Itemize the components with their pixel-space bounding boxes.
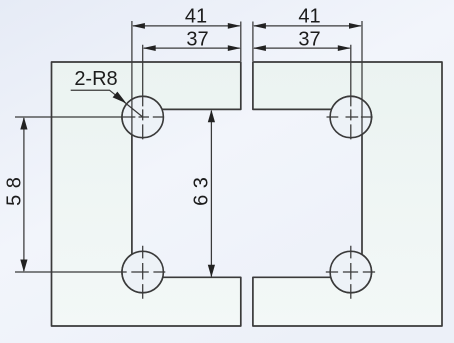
arrow 37 right-end (338, 45, 351, 51)
dimension line 41 right (254, 25, 361, 27)
centerline horizontal top-left hole (15, 116, 163, 118)
arrow 58 bottom (20, 260, 27, 273)
svg-text:58: 58 (4, 171, 26, 206)
arrow leader 2-R8 (113, 92, 127, 104)
dimension line 63 (210, 111, 212, 277)
svg-text:37: 37 (186, 28, 208, 50)
arrow 63 top (208, 110, 215, 123)
arrow 37 left-start (143, 45, 156, 51)
svg-text:41: 41 (298, 5, 320, 27)
hole top-left (R8) (122, 96, 163, 137)
dimension line 37 left (144, 47, 240, 49)
arrow 58 top (20, 117, 27, 130)
arrow 41 left-end (228, 23, 241, 29)
centerline horizontal bottom-right hole (326, 271, 375, 273)
hole top-right (R8) (330, 96, 371, 137)
centerline vertical bottom-right hole (350, 246, 352, 299)
dimension line 37 right (254, 47, 350, 49)
extension line notch edge right (361, 21, 363, 134)
centerline horizontal top-right hole (327, 116, 373, 118)
leader line 2-R8 (71, 90, 143, 117)
arrow 41 right-end (349, 23, 362, 29)
centerline vertical bottom-left hole (142, 246, 144, 299)
arrow 63 bottom (208, 265, 215, 278)
svg-text:41: 41 (185, 5, 207, 27)
arrow 41 right-start (253, 23, 266, 29)
dimension line 41 left (133, 25, 240, 27)
centerline vertical top-right hole (350, 45, 352, 140)
arrow 37 right-start (253, 45, 266, 51)
dimension line 58 (23, 118, 25, 271)
svg-text:37: 37 (298, 28, 320, 50)
centerline vertical top-left hole (142, 45, 144, 140)
glass panel left (with notch) (52, 62, 241, 326)
extension line right panel left edge (252, 22, 254, 62)
extension line left panel right edge (240, 22, 242, 62)
extension line notch edge left (131, 21, 133, 135)
hole bottom-left (R8) (122, 251, 163, 292)
svg-text:2-R8: 2-R8 (74, 68, 117, 90)
hole bottom-right (R8) (330, 251, 371, 292)
arrow 41 left-start (132, 23, 145, 29)
centerline horizontal bottom-left hole (15, 271, 165, 273)
svg-text:63: 63 (191, 171, 213, 206)
glass panel right (with notch) (253, 62, 442, 326)
arrow 37 left-end (228, 45, 241, 51)
